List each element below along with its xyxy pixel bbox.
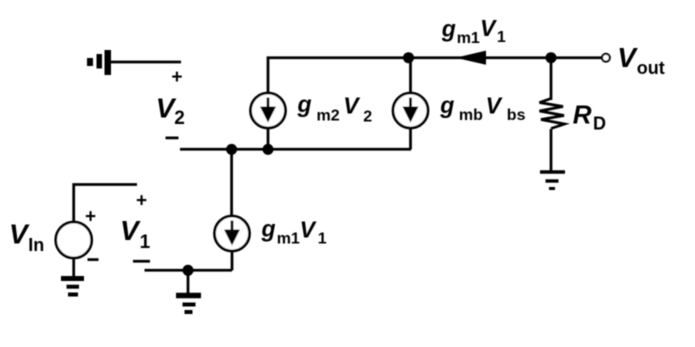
svg-text:V: V (486, 93, 503, 119)
label g_m2 V_2 (297, 91, 373, 126)
svg-text:g: g (261, 215, 276, 241)
svg-text:+: + (85, 206, 96, 227)
wire g_m2 bottom lead (267, 129, 270, 150)
current source g_m2 (U-gm2) (251, 93, 286, 128)
wire from top-left ground (111, 61, 181, 64)
wire R_D bottom lead (550, 129, 553, 172)
minus of V_in (88, 258, 99, 261)
ground (bottom middle) (176, 296, 201, 313)
svg-text:g: g (297, 91, 312, 117)
ground (AC ground, top-left, sideways) (87, 50, 111, 75)
svg-text:g: g (439, 92, 454, 118)
label V_in (9, 218, 44, 255)
label g_m1 V_1 (bottom) (261, 215, 327, 247)
ground (below V_in) (61, 279, 84, 295)
wire g_mb top lead (409, 58, 412, 93)
svg-text:m1: m1 (277, 231, 300, 248)
label - of V_2 (166, 137, 179, 140)
resistor R_D (540, 99, 565, 129)
node: g_m2 bottom junction (dot) (263, 144, 274, 155)
label g_m1 V_1 (top) (441, 15, 506, 47)
wire ground stub below bottom node (187, 270, 190, 293)
node: gate of M1 / source of M2 (dot left) (226, 144, 237, 155)
output terminal (open circle) (602, 54, 610, 62)
svg-text:1: 1 (318, 230, 327, 247)
svg-text:out: out (637, 58, 665, 78)
svg-text:In: In (28, 235, 44, 255)
svg-text:+: + (136, 190, 147, 211)
svg-text:R: R (573, 99, 592, 129)
svg-text:V: V (120, 215, 141, 246)
svg-text:2: 2 (174, 108, 185, 129)
label R_D (573, 99, 606, 133)
svg-text:V: V (480, 15, 497, 41)
ground (below R_D) (540, 172, 565, 189)
svg-text:2: 2 (363, 108, 372, 125)
svg-text:bs: bs (507, 107, 526, 124)
node: bottom ground junction (dot) (183, 265, 194, 276)
svg-text:1: 1 (140, 232, 151, 253)
label V_2 (156, 93, 185, 130)
current source g_m1 (U-gm1) (215, 216, 250, 251)
label V_out (617, 42, 665, 78)
wire g_m1 bottom lead (231, 251, 234, 270)
label - of V_1 (133, 260, 150, 263)
wire middle horizontal node (180, 148, 411, 151)
wire g_m1 top lead (230, 149, 233, 216)
label V_1 (120, 215, 151, 253)
wire R_D top lead (550, 58, 553, 100)
arrow (current direction on top wire) (456, 51, 487, 65)
wire V_in bottom lead (72, 258, 75, 278)
svg-text:D: D (593, 114, 606, 134)
svg-text:V: V (9, 218, 30, 249)
svg-text:m1: m1 (457, 30, 480, 47)
svg-text:V: V (617, 42, 638, 73)
svg-text:V: V (300, 216, 317, 242)
svg-text:mb: mb (459, 107, 483, 124)
svg-text:g: g (441, 15, 456, 41)
svg-text:+: + (171, 67, 182, 88)
label g_mb V_bs (439, 92, 525, 124)
wire g_mb bottom lead (409, 129, 412, 150)
node: g_mb top junction (dot) (403, 52, 414, 63)
svg-text:m2: m2 (317, 108, 340, 125)
svg-text:1: 1 (497, 29, 506, 46)
wire bottom horizontal node (145, 269, 233, 272)
wire top horizontal node (268, 58, 602, 93)
node: R_D top junction (dot) (546, 52, 557, 63)
svg-text:V: V (343, 93, 360, 119)
current source g_mb (U-gmb) (393, 93, 428, 128)
wire V_in top lead and V1 plus lead (74, 185, 137, 223)
voltage source V_in (56, 222, 92, 258)
